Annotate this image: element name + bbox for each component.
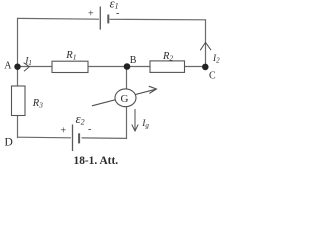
wire B to R2: [127, 66, 150, 68]
svg-text:Ig: Ig: [141, 119, 149, 130]
svg-text:C: C: [209, 71, 216, 82]
wire R1 to B: [88, 66, 127, 68]
svg-text:ε1: ε1: [110, 0, 119, 11]
wire G down to bottom: [126, 107, 128, 139]
node B: [124, 63, 131, 70]
svg-text:D: D: [5, 137, 13, 149]
svg-text:I2: I2: [212, 54, 220, 65]
svg-text:R1: R1: [65, 50, 76, 62]
wire left vertical R3 to bottom: [17, 116, 19, 138]
svg-text:I1: I1: [24, 57, 32, 68]
wire middle A to R1: [18, 66, 53, 68]
node C: [202, 64, 209, 71]
resistor R2: [150, 61, 185, 73]
svg-text:R3: R3: [32, 98, 43, 110]
battery E1 short plate: [107, 15, 109, 24]
svg-text:-: -: [88, 124, 91, 135]
resistor R1: [52, 61, 88, 72]
current Ig arrow (down): [132, 109, 138, 131]
battery E2 short plate: [78, 133, 80, 143]
svg-text:A: A: [4, 60, 12, 71]
battery E2 long plate: [72, 125, 74, 152]
galvanometer arrow (diagonal, under ellipse): [92, 86, 156, 106]
svg-text:+: +: [61, 126, 67, 137]
wire bottom-left segment: [18, 136, 71, 139]
wire top-right segment: [110, 18, 206, 21]
svg-text:18-1. Att.: 18-1. Att.: [74, 155, 119, 167]
resistor R3: [12, 86, 26, 116]
svg-text:ε2: ε2: [76, 111, 85, 126]
wire left vertical A to top: [17, 18, 19, 86]
svg-text:B: B: [130, 55, 137, 66]
battery E1 long plate: [99, 7, 101, 30]
wire bottom-right segment: [82, 137, 127, 140]
wire R2 to C: [185, 66, 206, 68]
node A: [14, 63, 20, 69]
current I1 arrow: [24, 63, 30, 72]
svg-text:G: G: [121, 93, 129, 105]
current I2 arrow (up): [200, 42, 211, 50]
galvanometer G: [115, 89, 136, 107]
wire B down to G: [126, 67, 128, 90]
wire right vertical: [205, 20, 207, 67]
svg-text:R2: R2: [162, 51, 173, 63]
svg-text:+: +: [88, 8, 94, 19]
wire top-left segment: [18, 17, 99, 20]
